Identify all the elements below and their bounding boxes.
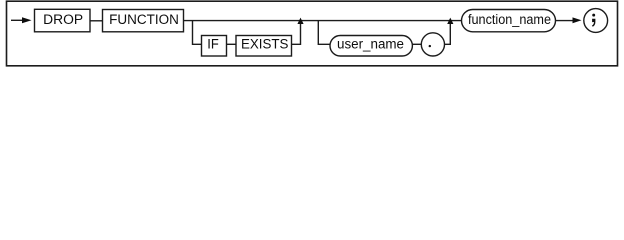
box FUNCTION <box>103 10 184 32</box>
box IF <box>202 36 227 57</box>
circle dot terminal <box>421 33 444 56</box>
border frame <box>7 1 618 66</box>
wire dot to riser <box>445 22 451 44</box>
branch descent wire 2 <box>318 21 330 45</box>
wire user_name to dot <box>412 43 422 45</box>
rejoin arrowhead 2 <box>447 18 453 24</box>
svg-text:user_name: user_name <box>337 37 404 53</box>
svg-text:FUNCTION: FUNCTION <box>109 12 179 28</box>
oval function_name <box>462 10 556 32</box>
svg-text:DROP: DROP <box>43 12 83 28</box>
entry arrowhead <box>22 17 32 23</box>
wire EXISTS to riser <box>292 22 301 44</box>
svg-text:IF: IF <box>207 37 219 53</box>
rejoin arrowhead 1 <box>297 18 303 24</box>
main rail wire <box>184 20 463 22</box>
svg-text:EXISTS: EXISTS <box>241 37 289 53</box>
wire IF to EXISTS <box>227 43 237 45</box>
oval user_name <box>330 36 412 57</box>
box DROP <box>35 9 91 32</box>
branch descent wire 1 <box>193 21 202 45</box>
circle semicolon terminal <box>584 9 608 33</box>
exit arrowhead <box>573 17 582 23</box>
exit wire <box>556 20 574 22</box>
entry wire <box>11 19 22 21</box>
box EXISTS <box>236 36 292 57</box>
wire DROP to FUNCTION <box>90 20 103 22</box>
svg-text:function_name: function_name <box>468 12 551 28</box>
